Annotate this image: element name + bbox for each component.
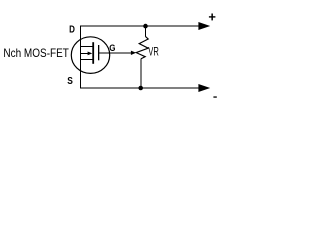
- wire drain-source vertical: [80, 26, 82, 59]
- wire drain lead horizontal into channel: [80, 45, 93, 47]
- transistor body arrow line: [81, 52, 88, 54]
- wire VR top lead: [144, 26, 146, 36]
- wire gate to wiper: [99, 52, 131, 54]
- terminal arrowhead minus: [198, 84, 210, 92]
- transistor channel bar: [92, 42, 94, 64]
- transistor body arrowhead: [88, 52, 93, 56]
- junction dot top: [143, 24, 148, 29]
- junction dot bottom: [138, 86, 143, 91]
- terminal arrowhead plus: [198, 22, 210, 30]
- svg-text:S: S: [67, 76, 73, 87]
- wire source lead vertical: [80, 59, 82, 88]
- terminal label -: [213, 96, 216, 97]
- svg-text:G: G: [109, 43, 115, 54]
- wire bottom rail: [80, 87, 200, 89]
- wiper arrowhead: [131, 51, 136, 55]
- terminal label +: [209, 14, 216, 21]
- resistor VR zigzag: [136, 36, 148, 59]
- svg-text:D: D: [69, 24, 75, 35]
- wire VR bottom lead: [140, 59, 142, 88]
- transistor gate bar: [98, 45, 99, 60]
- svg-text:VR: VR: [148, 44, 159, 58]
- wire top rail: [80, 25, 200, 27]
- transistor Q1 body circle: [71, 37, 109, 74]
- svg-text:Nch MOS-FET: Nch MOS-FET: [3, 46, 69, 60]
- wire source lead horizontal: [80, 58, 93, 60]
